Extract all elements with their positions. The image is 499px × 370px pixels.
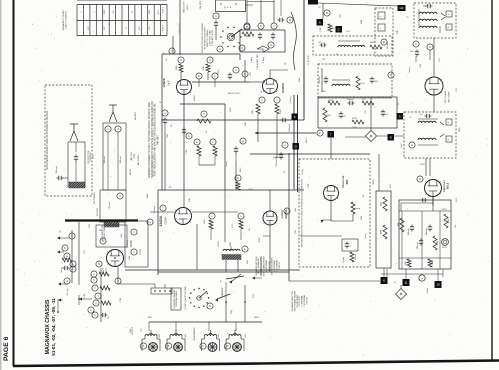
page number text PAGE 6 [3,336,10,361]
svg-text:BLU: BLU [148,317,153,319]
svg-text:⌐: ⌐ [380,14,382,18]
resistor R30 [328,100,340,105]
svg-text:1: 1 [415,42,417,46]
svg-text:500: 500 [149,9,151,13]
test point 10 [435,281,442,288]
wire long horizontal 270 [125,270,300,280]
capacitor C45 [420,114,432,118]
svg-text:POS 2: POS 2 [163,24,165,31]
svg-text:1: 1 [350,246,352,248]
audio column refs [91,271,111,318]
svg-text:DAMPER: DAMPER [221,287,224,296]
svg-text:G: G [390,73,392,77]
svg-text:.0047: .0047 [240,167,242,173]
svg-text:270mmf: 270mmf [154,206,156,214]
svg-text:5: 5 [203,112,205,116]
svg-text:390mmf: 390mmf [56,166,58,173]
svg-text:385V: 385V [442,209,447,211]
resistor R49 [444,214,450,228]
svg-text:FM TUNING: FM TUNING [94,192,96,204]
svg-text:3-FM-AFC 4-FM: 3-FM-AFC 4-FM [211,30,214,46]
svg-text:470K: 470K [120,297,122,302]
RF amp box 12BZ6 [125,221,148,267]
coil L6 [332,80,350,86]
svg-text:POINT REPLACEMENT AND MAY NOT: POINT REPLACEMENT AND MAY NOT NECESSARIL… [154,103,157,176]
svg-text:WW: WW [381,230,383,234]
svg-text:X2: X2 [332,28,335,30]
det box labels [251,54,265,70]
svg-text:A: A [220,280,222,283]
svg-text:f: f [95,286,96,290]
wire pwr verticals [402,211,440,269]
svg-text:MOTOR: MOTOR [97,208,99,216]
svg-text:470K: 470K [320,27,322,32]
svg-text:117V: 117V [456,197,458,202]
capacitor C5 [258,23,264,40]
circled ref G3 [207,303,213,309]
resistor R10 [169,48,181,55]
resistor R64 [79,293,101,301]
output transformer T6 and speaker SP2 [165,330,185,351]
svg-text:6AU6A: 6AU6A [281,82,285,93]
resistor R48 [433,236,439,250]
capacitor C56 [426,225,432,236]
svg-text:k: k [90,308,92,312]
svg-text:X3: X3 [398,102,400,105]
svg-text:s: s [133,251,135,254]
svg-text:2: 2 [429,45,431,49]
wire bottom left [58,295,79,313]
svg-text:NON-PHASED: NON-PHASED [193,327,196,340]
wire t3 down [416,38,434,76]
svg-text:USE 51 CHASSIS: USE 51 CHASSIS [64,11,67,29]
svg-text:PAGE 6: PAGE 6 [3,336,10,361]
svg-text:1meg: 1meg [226,161,228,167]
svg-text:COUNT CCW FROM REAR: COUNT CCW FROM REAR [184,286,187,310]
svg-text:9: 9 [419,177,421,181]
svg-text:5mf: 5mf [401,144,403,148]
svg-text:1st FM IF: 1st FM IF [126,239,129,248]
wire loop [74,142,78,182]
svg-text:b: b [260,24,262,28]
svg-text:270: 270 [365,109,367,113]
capacitor C34 [339,112,347,119]
coil L10 [418,119,438,123]
svg-text:1: 1 [81,11,83,13]
svg-text:56K: 56K [245,122,247,126]
svg-text:.006: .006 [374,81,379,83]
resistor R16 [194,139,201,165]
svg-text:16: 16 [132,10,134,13]
svg-text:SWITCH AND DETENT: SWITCH AND DETENT [263,255,266,276]
svg-text:D: D [227,344,229,348]
speaker connection chart table [77,1,167,36]
svg-text:8: 8 [126,27,128,29]
svg-text:140mmf: 140mmf [408,228,410,235]
svg-text:5U4: 5U4 [390,183,392,188]
limiter grid box [318,97,397,128]
svg-text:22K: 22K [340,14,342,18]
svg-text:12BZ6: 12BZ6 [130,240,133,248]
svg-text:10K: 10K [327,115,331,117]
svg-text:X5: X5 [284,170,286,173]
wire y133 [255,132,316,135]
svg-text:.01: .01 [343,116,347,118]
svg-text:1meg: 1meg [61,267,63,273]
label 250 source [130,326,134,335]
ext speaker board box [171,288,181,310]
resistor R62 [209,213,215,229]
svg-text:o: o [284,144,286,147]
resistor R33 [352,118,364,124]
svg-text:270: 270 [456,87,458,91]
svg-text:200mmf 6M: 200mmf 6M [276,157,278,167]
svg-text:4: 4 [94,11,96,13]
svg-text:47K: 47K [84,250,86,254]
svg-text:q: q [149,221,151,224]
svg-text:2700: 2700 [360,83,365,85]
svg-text:150K: 150K [328,100,333,102]
wire 387 vertical [387,269,443,277]
svg-text:u: u [211,215,213,218]
tube V7 6AL5 ratio det [417,176,450,197]
svg-text:X1: X1 [261,90,263,93]
resistor R5 [242,23,254,36]
wire audio vertical [101,267,130,322]
svg-text:LIGHT: LIGHT [187,3,189,10]
antenna ANT2 [109,105,117,122]
svg-text:SOURCE: SOURCE [132,326,134,335]
svg-text:VOL 4 MEG TAP: VOL 4 MEG TAP [256,54,259,70]
wire eye [321,200,354,223]
resistor R21 [275,104,279,120]
terminal sq T3b [446,24,452,30]
tuning indicator dashed box [299,159,370,267]
function switch legend text [202,23,214,53]
svg-text:COIL: COIL [134,153,136,159]
svg-text:1meg: 1meg [365,233,367,239]
svg-text:1 Meg: 1 Meg [263,56,265,63]
resistor R60 [62,253,72,262]
svg-text:68K: 68K [397,30,399,34]
svg-text:180mmf: 180mmf [387,42,389,49]
svg-text:NUMBERS ASSIGNED TO COILS, SWI: NUMBERS ASSIGNED TO COILS, SWITCHES, PLA… [148,102,151,178]
svg-text:8: 8 [71,234,73,238]
capacitor C15 [196,73,202,87]
svg-text:2: 2 [117,127,119,131]
resistor R52 [428,259,434,267]
svg-text:47K: 47K [216,150,218,154]
tube V5 6AU6A 2nd IF [259,79,285,104]
coil L11 [418,138,438,145]
svg-text:1meg: 1meg [355,208,360,210]
svg-text:.02: .02 [206,130,208,134]
capacitor C17 [228,67,248,80]
svg-text:1500: 1500 [459,127,461,132]
diamond junction J1 [345,97,404,142]
svg-text:ON-OFF: ON-OFF [200,0,202,9]
svg-text:C: C [202,344,204,348]
svg-text:.05: .05 [60,230,62,234]
label fuse [0,0,1,1]
resistor R17 [210,139,217,165]
circled ref E [381,39,389,49]
svg-text:NO ANTENNA CIRCUIT USED IN CHA: NO ANTENNA CIRCUIT USED IN CHASSIS 51-04… [46,110,49,170]
svg-text:150K: 150K [299,77,301,82]
selector legend text [260,255,281,276]
wire conv [150,212,241,240]
tube V6 6AL5 det [388,72,443,95]
svg-text:+ + +: + + + [224,6,231,10]
page right border line [491,0,493,361]
table caption SPEAKER CHART [62,9,67,30]
svg-text:E: E [383,40,385,44]
svg-text:b: b [72,262,74,266]
svg-text:FM: FM [295,230,297,233]
svg-text:2: 2 [219,47,221,51]
svg-text:c: c [273,25,275,28]
svg-text:INT: INT [149,26,151,30]
svg-text:140mmf: 140mmf [426,228,428,235]
wire v9 [259,225,270,272]
svg-text:f: f [213,140,214,144]
svg-text:10K: 10K [203,66,205,70]
svg-text:250V: 250V [259,237,261,242]
output transformer T8 and speaker SP4 [224,330,244,351]
svg-text:360 TO E AMP: 360 TO E AMP [444,90,447,103]
svg-text:.05: .05 [166,58,168,62]
svg-text:2.7meg: 2.7meg [343,257,345,263]
svg-text:A.F.C.: A.F.C. [305,137,308,143]
label V1 [103,267,107,274]
svg-text:100: 100 [89,223,91,227]
wire y154 [250,138,379,191]
coil L7 [419,9,437,26]
wire bus top-left [161,54,304,190]
capacitor C55 [408,225,414,236]
svg-text:g: g [242,140,244,143]
capacitor C60 [56,166,68,180]
wire osc [229,242,231,246]
svg-text:150K: 150K [361,215,363,220]
svg-text:-1V: -1V [168,187,172,189]
svg-text:A: A [143,344,145,348]
tuning gang bar [65,219,138,221]
svg-text:12BZ6: 12BZ6 [162,78,166,87]
labels AM OSC COIL [130,151,140,165]
svg-text:365V: 365V [442,247,447,249]
capacitor C63 [57,245,68,254]
svg-text:t: t [163,206,164,210]
test point 6 [281,114,299,123]
diamond junction J2 [396,285,430,300]
test point H2 [398,5,406,11]
svg-text:h: h [94,313,96,317]
capacitor C50 [273,153,283,167]
svg-text:AVC: AVC [322,90,327,93]
osc transformer T1 [218,241,249,272]
svg-text:OSC: OSC [247,259,249,264]
svg-text:G: G [411,143,413,147]
resistor R20 [256,104,260,120]
svg-text:9: 9 [64,246,66,250]
svg-text:.05: .05 [108,316,110,320]
resistor R40 [351,202,360,214]
resistor R12 [206,57,213,80]
AM loop antenna dashed box [45,85,92,196]
svg-text:.05: .05 [285,62,287,66]
svg-text:v: v [240,215,242,218]
svg-text:10: 10 [436,283,440,287]
svg-text:T4: T4 [409,117,412,119]
svg-text:2200: 2200 [381,201,383,206]
capacitor C41 [410,50,419,57]
svg-text:60~: 60~ [455,223,457,227]
svg-text:600: 600 [113,10,115,13]
svg-text:V.C.: V.C. [141,328,143,332]
label FM TUNING [102,224,106,241]
svg-text:a: a [66,255,68,258]
svg-text:e: e [93,273,95,276]
svg-text:600: 600 [218,333,220,337]
svg-text:1200: 1200 [230,107,232,112]
svg-text:.0047: .0047 [218,69,220,75]
resistor R18 [235,175,241,190]
svg-text:47K: 47K [362,99,366,101]
IF transformer T3 box [414,3,456,38]
svg-text:a: a [246,25,248,28]
capacitor C65 [70,266,76,272]
svg-text:220K: 220K [129,255,131,260]
svg-text:2. EXTERNAL: 2. EXTERNAL [276,259,279,272]
slug arrows T4 [440,122,444,137]
svg-text:T3: T3 [406,17,409,19]
FM tuning gang box [100,190,126,222]
svg-text:100K: 100K [432,260,434,265]
wire detector [250,70,288,82]
svg-text:270mmf: 270mmf [109,202,111,209]
svg-text:455KC: 455KC [194,94,196,101]
tube V1 FM RF [91,250,124,285]
svg-text:10K: 10K [189,198,191,202]
capacitor C31 [319,68,328,92]
svg-text:1: 1 [215,14,217,18]
svg-text:1: 1 [107,127,109,131]
AM detector box [240,30,285,52]
terminal sq T3a [446,11,452,17]
svg-text:t: t [277,98,278,102]
svg-text:X2: X2 [318,7,321,9]
svg-text:h: h [237,176,239,180]
svg-text:2200: 2200 [437,241,439,245]
test point A [317,10,331,26]
svg-text:6AG5A: 6AG5A [159,215,163,226]
svg-text:c: c [72,268,74,271]
shield box left [375,8,393,56]
svg-text:47K: 47K [405,261,407,265]
speaker legend text2 [291,291,308,311]
svg-text:1st IF: 1st IF [168,79,171,86]
svg-text:INT: INT [104,26,106,30]
svg-text:1800: 1800 [448,219,450,223]
svg-text:CONV: CONV [165,217,168,225]
svg-text:BOTH: BOTH [158,9,160,15]
svg-text:600: 600 [245,333,247,337]
loopstick box [68,142,85,187]
capacitor C35 [381,110,389,117]
svg-text:600: 600 [159,333,161,337]
svg-text:≈: ≈ [448,121,450,125]
component value labels [60,7,461,338]
capacitor C32 [370,77,379,84]
test point 7 [317,130,334,138]
resistor R51 [405,259,411,267]
label 2.2meg [57,289,80,313]
svg-text:45Ω: 45Ω [246,35,251,38]
svg-text:H2: H2 [400,6,404,10]
svg-text:1200: 1200 [280,109,282,114]
svg-text:470K: 470K [308,183,310,188]
svg-text:TUNING IND: TUNING IND [343,175,345,188]
svg-text:140mmf: 140mmf [417,242,419,249]
wire main vertical bus [294,0,304,192]
svg-text:M: M [289,18,291,22]
wire det box top leads [247,0,281,23]
svg-text:IN “INTERNAL”: IN “INTERNAL” [265,259,268,273]
resistor R29 [356,76,365,90]
svg-text:m: m [198,75,200,78]
wire from table to switch [179,0,181,54]
capacitor C16 [212,73,218,87]
test point terminal top [308,0,318,5]
svg-text:AM: AM [294,208,297,211]
svg-text:.05: .05 [171,124,173,128]
capacitor C7 [278,17,294,23]
resistor R15 [197,111,211,123]
svg-text:AM ANT: AM ANT [134,111,137,119]
test point C [336,26,343,33]
svg-text:G: G [209,304,211,308]
svg-text:j: j [97,294,99,298]
svg-text:d: d [66,279,68,283]
svg-text:.05: .05 [318,42,322,44]
resistor R25 [328,24,335,32]
resistor R45 [381,197,388,211]
page left border line [13,0,15,366]
svg-text:p: p [235,69,237,72]
svg-text:.002: .002 [420,63,422,68]
svg-text:≈: ≈ [448,138,450,142]
test point D [282,142,299,150]
speaker section text [255,256,262,275]
capacitor C33 [347,99,355,105]
output transformer T5 and speaker SP1 [140,330,160,351]
svg-text:F: F [319,131,321,135]
svg-text:600: 600 [185,333,187,337]
svg-text:r: r [134,230,135,234]
FM RF box [96,225,127,247]
output transformer T7 and speaker SP3 [200,330,220,351]
tube V8 6E5 tuning eye [324,175,350,200]
wire pwr top [401,196,433,211]
resistor R32 [323,108,331,122]
resistor R41 [343,252,357,263]
svg-text:11: 11 [404,281,407,285]
svg-text:GRN: GRN [254,317,259,319]
bias divider box [376,191,391,268]
resistor R63 [238,213,244,229]
svg-text:FM: FM [99,230,102,232]
